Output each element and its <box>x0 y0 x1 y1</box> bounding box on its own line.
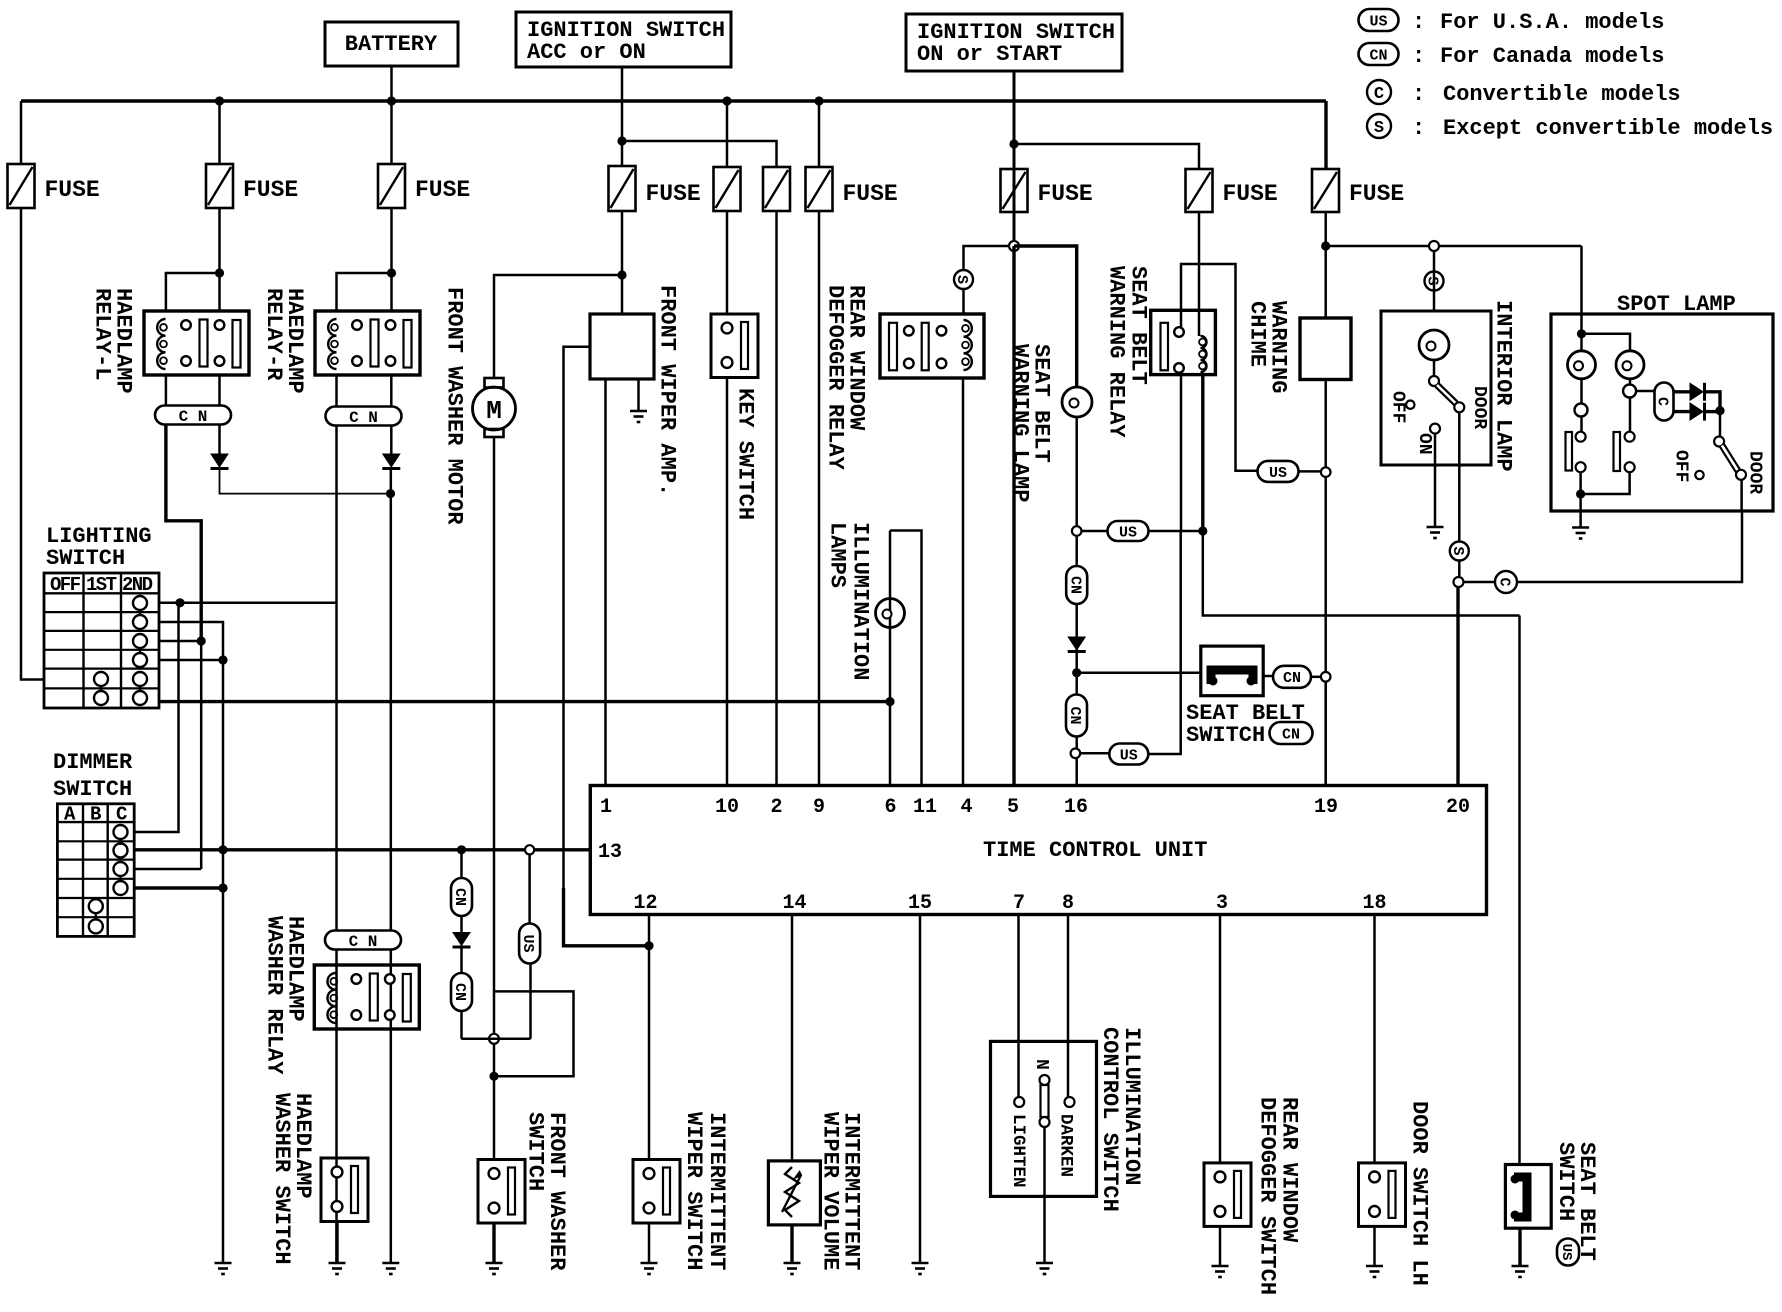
svg-text::: : <box>1412 44 1425 69</box>
wire bus to F3 <box>390 101 393 164</box>
S circle interior lamp <box>1425 272 1444 291</box>
junction dot above relay-R <box>387 268 396 277</box>
junction dot ON/START branch <box>1009 139 1018 148</box>
wire bus corner to F10 <box>1324 101 1327 169</box>
svg-text:WARNING RELAY: WARNING RELAY <box>1104 266 1129 438</box>
svg-text:KEY SWITCH: KEY SWITCH <box>733 388 758 520</box>
wire TCU pin15 to ground <box>919 915 922 1264</box>
wire relay-R coil to CN oval <box>335 374 338 407</box>
diode relay-L output <box>211 454 228 467</box>
spot switch contacts left <box>1576 432 1586 442</box>
svg-text:DEFOGGER RELAY: DEFOGGER RELAY <box>823 285 848 471</box>
svg-text:18: 18 <box>1362 892 1386 915</box>
wire relay coil down <box>1201 375 1204 531</box>
svg-text::: : <box>1412 10 1425 35</box>
fuse F10 <box>1312 169 1339 212</box>
interior lamp switch pivot <box>1429 376 1439 386</box>
wire diode outputs <box>1705 392 1721 411</box>
front washer motor <box>485 378 504 388</box>
wire F4 to wiper amp <box>621 211 624 314</box>
fuse F4 <box>609 166 636 211</box>
ground seat belt switch <box>1512 1265 1529 1268</box>
wire chime line to spot lamp <box>1580 246 1583 351</box>
svg-text:SWITCH: SWITCH <box>1186 723 1265 748</box>
haedlamp washer relay <box>314 965 419 1029</box>
svg-text:Convertible models: Convertible models <box>1443 82 1681 107</box>
fuse F9 <box>1186 169 1213 212</box>
ground front washer switch <box>486 1262 503 1265</box>
seat belt switch US box <box>1505 1165 1551 1229</box>
interior lamp DOOR contact <box>1454 402 1464 412</box>
svg-text:SWITCH: SWITCH <box>523 1112 548 1191</box>
haedlamp washer relay CN oval <box>325 931 401 950</box>
ground haedlamp washer switch <box>335 1222 338 1264</box>
junction dot row3 <box>197 636 206 645</box>
connector oval CN warning lamp lower <box>1066 695 1087 737</box>
spot lamp bulb 1 <box>1568 351 1596 379</box>
rear window defogger relay box <box>880 314 984 378</box>
svg-text:LAMPS: LAMPS <box>825 522 850 588</box>
svg-text:FUSE: FUSE <box>415 177 470 203</box>
svg-text:SWITCH: SWITCH <box>53 777 132 802</box>
wire diode-L to junction <box>220 469 391 494</box>
connector circle washer node <box>489 1034 499 1044</box>
connector circle ON/START node <box>1009 241 1019 251</box>
svg-text:For Canada models: For Canada models <box>1440 44 1664 69</box>
ground interior lamp <box>1427 526 1444 529</box>
illumination control switch box <box>991 1041 1097 1196</box>
ground intermittent wiper switch <box>641 1262 658 1265</box>
wire CN lower to washer node <box>460 1011 463 1039</box>
main battery bus wire <box>21 99 1326 102</box>
svg-text:FUSE: FUSE <box>1349 181 1404 207</box>
svg-text:US: US <box>1269 465 1287 482</box>
svg-text:US: US <box>1120 747 1138 764</box>
svg-text:WARNING LAMP: WARNING LAMP <box>1008 344 1033 502</box>
wire US lower bypass <box>1081 752 1110 755</box>
svg-text:FUSE: FUSE <box>646 181 701 207</box>
dimmer switch table <box>57 804 134 937</box>
svg-text:For U.S.A. models: For U.S.A. models <box>1440 10 1664 35</box>
ignition switch ACC-or-ON box <box>516 12 731 67</box>
wire TCU pin14 down <box>791 915 794 1161</box>
fuse F1 <box>8 164 35 208</box>
wire TCU pin12 down <box>648 915 651 1160</box>
connector oval CN relay-R <box>326 407 402 426</box>
wire to interior lamp <box>1433 251 1436 311</box>
wire TCU pin18 down <box>1373 915 1376 1163</box>
svg-text:CN: CN <box>1282 726 1300 743</box>
svg-text:DOOR: DOOR <box>1469 386 1489 429</box>
wire ignition ACC to fuse F4 <box>621 67 624 166</box>
wire F2 to relay-L junction <box>218 207 221 311</box>
fuse F3 <box>378 164 405 208</box>
wire CN chain horizontal <box>461 1038 530 1041</box>
wire F10 to chime <box>1324 212 1327 318</box>
svg-text:FUSE: FUSE <box>1223 181 1278 207</box>
wire C to spot lamp <box>1517 511 1742 582</box>
wire ON/START to warning lamp <box>1014 246 1077 388</box>
wire relay-L right output to diode <box>218 424 221 454</box>
svg-text:DIMMER: DIMMER <box>53 750 133 775</box>
warning chime box <box>1300 318 1351 380</box>
wire dimmer row4 <box>134 886 223 889</box>
front washer switch <box>478 1160 525 1224</box>
svg-text:9: 9 <box>813 796 825 819</box>
svg-text:S: S <box>953 275 970 284</box>
spot lamp bulb 2 <box>1616 351 1644 379</box>
wire bus to F1 <box>20 101 23 164</box>
bus junction dots <box>215 96 224 105</box>
TIME CONTROL UNIT box <box>590 786 1486 915</box>
rear window defogger switch <box>1204 1163 1251 1227</box>
svg-text::: : <box>1412 82 1425 107</box>
seat belt switch box (console) <box>1201 646 1263 696</box>
dimmer switch contacts C column <box>114 825 128 839</box>
wire washer switch to ground <box>492 1223 495 1263</box>
svg-text:LIGHTEN: LIGHTEN <box>1008 1114 1028 1188</box>
wire S to C node <box>1458 561 1461 583</box>
svg-text:SWITCH: SWITCH <box>1553 1142 1578 1221</box>
svg-text:CN: CN <box>1283 670 1301 687</box>
interior lamp bulb <box>1419 330 1449 360</box>
connector circle bulb1 <box>1575 404 1588 417</box>
wire left edge down to lighting switch <box>21 207 44 680</box>
svg-text:2ND: 2ND <box>122 574 153 596</box>
dimmer switch contacts B column <box>89 899 103 913</box>
svg-text:CN: CN <box>1066 706 1083 724</box>
interior lamp ON contact <box>1430 424 1440 434</box>
legend C circle <box>1367 80 1391 104</box>
wire diode-R down <box>390 469 393 1264</box>
svg-text:B: B <box>90 804 101 826</box>
wire link down to seat belt switch US <box>1518 616 1521 1165</box>
svg-text:OFF: OFF <box>50 574 81 596</box>
wire bulb2 to C oval <box>1636 390 1655 393</box>
svg-text:6: 6 <box>884 796 896 819</box>
S circle defogger <box>954 270 973 289</box>
svg-text:3: 3 <box>1216 892 1228 915</box>
spot lamp box <box>1551 314 1773 511</box>
illumination lamp bulb <box>876 599 905 628</box>
fuse F8 <box>1001 169 1028 212</box>
lighting switch contacts 2ND column <box>133 596 147 610</box>
wire bus to F2 <box>218 101 221 164</box>
svg-text:ON: ON <box>1414 433 1434 455</box>
svg-text:2: 2 <box>770 796 782 819</box>
connector oval US chime <box>1258 461 1299 482</box>
junction dot pin13-row2 <box>218 845 227 854</box>
junction dot ACC branch <box>617 136 626 145</box>
seat belt warning relay box <box>1151 310 1216 374</box>
svg-text:C: C <box>1496 577 1513 586</box>
wire F6 to TCU pin2 <box>775 211 778 786</box>
wire CN oval to node <box>1311 676 1321 679</box>
wire F5 to key switch <box>726 211 729 314</box>
intermittent wiper volume box <box>768 1161 820 1225</box>
illumination slider <box>1040 1075 1050 1085</box>
svg-text:A: A <box>64 804 76 826</box>
svg-text:RELAY-L: RELAY-L <box>90 288 115 380</box>
door switch LH <box>1359 1163 1406 1227</box>
wire warning lamp down <box>1075 417 1078 786</box>
connector oval CN chain lower <box>451 973 472 1011</box>
wire motor down <box>493 437 496 1160</box>
svg-text:ON or START: ON or START <box>917 42 1062 67</box>
svg-text:S: S <box>1449 546 1466 555</box>
wire bulb1 down <box>1580 379 1583 432</box>
svg-text:11: 11 <box>913 796 937 819</box>
svg-text:WASHER SWITCH: WASHER SWITCH <box>269 1093 294 1265</box>
wire ON/START branch to F9 <box>1014 144 1199 169</box>
lighting switch contacts 1ST column <box>94 672 108 686</box>
svg-text:C: C <box>1374 85 1384 104</box>
svg-text:C: C <box>1654 397 1671 406</box>
svg-text:4: 4 <box>960 796 972 819</box>
svg-text:13: 13 <box>598 841 622 864</box>
svg-text:FUSE: FUSE <box>1038 181 1093 207</box>
haedlamp washer switch <box>321 1158 368 1222</box>
svg-text:1: 1 <box>600 796 612 819</box>
wire relay-R left output down <box>335 425 338 1263</box>
connector circle chime-US <box>1321 467 1331 477</box>
wire TCU pin8 down <box>1067 915 1070 1098</box>
wire wiper amp to TCU pin1 <box>604 379 607 786</box>
wire defogger relay feed <box>964 246 1015 270</box>
svg-text:US: US <box>519 934 536 952</box>
illumination DARKEN contact <box>1065 1097 1075 1107</box>
connector oval CN relay-L <box>155 406 231 425</box>
wire relay-L contact to CN oval <box>218 374 221 406</box>
ground spot lamp <box>1572 526 1589 529</box>
connector circle bulb2 <box>1623 385 1636 398</box>
svg-text:15: 15 <box>908 892 932 915</box>
wire lighting row4 <box>159 659 223 662</box>
svg-text:FRONT WIPER AMP.: FRONT WIPER AMP. <box>655 285 680 496</box>
relay HAEDLAMP RELAY-L <box>144 311 249 375</box>
wire wiper amp ground <box>637 379 640 411</box>
fuse F7 <box>806 167 833 211</box>
svg-text:S: S <box>1424 276 1441 285</box>
svg-text:7: 7 <box>1013 892 1025 915</box>
svg-text:1ST: 1ST <box>86 574 117 596</box>
wire amp-pin12 link <box>564 888 650 946</box>
wire branch to washer motor <box>494 275 622 378</box>
spot door switch pivot <box>1714 437 1724 447</box>
connector circle warning lamp node <box>1072 526 1082 536</box>
wire bulb2 contact merge <box>1581 472 1630 494</box>
wire relay to US branch <box>1199 264 1258 471</box>
wire F3 to relay-R junction <box>390 207 393 311</box>
wire spot DOOR down <box>1740 480 1743 511</box>
seat belt buckle symbol <box>1514 1177 1527 1217</box>
svg-text:ACC or ON: ACC or ON <box>527 40 646 65</box>
svg-text:CN: CN <box>1369 47 1387 64</box>
diode spot 2 <box>1690 403 1703 420</box>
fuse F5 <box>714 167 741 211</box>
legend CN oval <box>1359 43 1399 65</box>
svg-text:US: US <box>1369 13 1387 30</box>
wire chime branch right <box>1326 245 1582 248</box>
wire to seat belt switch <box>1077 671 1201 674</box>
svg-text:C N: C N <box>349 409 378 427</box>
junction dot illumination <box>885 697 894 706</box>
svg-text:C N: C N <box>349 933 378 951</box>
svg-text:N: N <box>1031 1059 1051 1070</box>
wire to ground <box>648 1223 651 1263</box>
svg-text:20: 20 <box>1446 796 1470 819</box>
junction dot relay-lamp <box>1198 526 1207 535</box>
wire to ground <box>1373 1227 1376 1267</box>
key switch <box>711 314 758 378</box>
wire US chain down <box>528 854 531 923</box>
svg-text:S: S <box>1374 119 1384 138</box>
connector oval CN chain upper <box>451 878 472 916</box>
connector oval US warning lamp lower <box>1109 744 1148 765</box>
wire relay node to TCU20 link <box>1203 531 1520 616</box>
diode CN chain <box>453 933 470 946</box>
svg-text:ILLUMINATION: ILLUMINATION <box>848 522 873 680</box>
junction dot row1 <box>175 598 184 607</box>
wire spot branch <box>1582 334 1631 351</box>
wire battery to bus <box>390 66 393 101</box>
svg-text:BATTERY: BATTERY <box>345 32 438 57</box>
wire bulb to pivot <box>1433 360 1436 376</box>
svg-text:DARKEN: DARKEN <box>1056 1114 1076 1177</box>
svg-text:16: 16 <box>1064 796 1088 819</box>
junction dot diodes merge <box>386 489 395 498</box>
wire relay contact down <box>1180 373 1183 532</box>
wire dimmer row2 to TCU pin13 <box>134 848 590 851</box>
svg-text:WIPER VOLUME: WIPER VOLUME <box>818 1112 843 1270</box>
svg-text:C N: C N <box>179 408 208 426</box>
wire relay-R contact to CN oval <box>390 374 393 407</box>
svg-text:CHIME: CHIME <box>1245 301 1270 367</box>
ground pin15 <box>912 1262 929 1265</box>
junction dot row4 <box>218 655 227 664</box>
wire branch to relay-R coil <box>337 273 392 311</box>
wire dimmer row3 <box>134 868 201 871</box>
svg-text:CN: CN <box>451 888 468 906</box>
front wiper amp box <box>590 314 654 379</box>
svg-text:10: 10 <box>715 796 739 819</box>
spot OFF contact <box>1695 471 1703 479</box>
ground lighting row2 wire <box>215 1262 232 1265</box>
svg-text:FUSE: FUSE <box>243 177 298 203</box>
wiper volume resistor zigzag <box>785 1167 799 1217</box>
junction dot spot ground <box>1576 489 1585 498</box>
interior lamp box <box>1381 311 1491 465</box>
svg-text:DOOR SWITCH LH: DOOR SWITCH LH <box>1407 1101 1432 1286</box>
wire to ground <box>1219 1227 1222 1267</box>
wire CN chain down <box>460 850 463 878</box>
interior lamp OFF contact <box>1406 401 1414 409</box>
wire diode to CN lower <box>460 947 463 973</box>
wire row3 vertical to dimmer <box>200 641 203 869</box>
wire branch to relay-L coil <box>166 273 220 311</box>
wire lighting row6 to illumination lamps <box>159 700 890 703</box>
junction dot diode merge <box>1715 406 1724 415</box>
svg-text:CONTROL SWITCH: CONTROL SWITCH <box>1097 1027 1122 1212</box>
svg-text:WASHER RELAY: WASHER RELAY <box>262 916 287 1075</box>
C circle convertible <box>1495 571 1517 593</box>
wire bulb1 contact to ground <box>1579 472 1582 528</box>
wire motor bypass loop <box>494 991 574 1076</box>
wire lighting row2 <box>159 622 223 1263</box>
connector circle seat belt CN node <box>1321 672 1331 682</box>
legend S circle <box>1367 114 1391 138</box>
junction dot warning lamp chain <box>1072 668 1081 677</box>
wire relay-L left output <box>166 424 201 641</box>
ground illumination switch <box>1036 1262 1053 1265</box>
connector circle C node <box>1454 577 1464 587</box>
legend US oval <box>1359 9 1399 31</box>
intermittent wiper switch <box>633 1160 680 1224</box>
svg-text:M: M <box>486 396 502 426</box>
spot switch contacts right <box>1625 432 1635 442</box>
interior lamp switch lever <box>1437 385 1456 404</box>
connector oval C spot <box>1655 383 1674 421</box>
connector oval US warning lamp <box>1108 521 1149 541</box>
relay HAEDLAMP RELAY-R <box>315 311 420 375</box>
svg-text:US: US <box>1119 524 1137 541</box>
svg-text:CN: CN <box>1066 576 1083 594</box>
wire ON contact to ground <box>1434 434 1437 527</box>
wire seat belt switch to CN oval <box>1263 675 1273 678</box>
wire C node to TCU pin20 <box>1456 587 1459 786</box>
svg-text:RELAY-R: RELAY-R <box>261 288 286 381</box>
junction dot bypass <box>489 1072 498 1081</box>
ground wiper volume <box>784 1262 801 1265</box>
svg-text:19: 19 <box>1314 796 1338 819</box>
wire volume to ground <box>790 1225 793 1263</box>
connector oval CN seat belt <box>1273 666 1311 688</box>
diode relay-R output <box>383 454 400 467</box>
junction dot above wiper amp <box>617 270 626 279</box>
svg-text:Except convertible models: Except convertible models <box>1443 116 1773 141</box>
wire defogger relay to TCU pin4 <box>962 378 965 786</box>
wire key switch to TCU pin10 <box>726 378 729 786</box>
diode warning lamp chain <box>1068 637 1085 650</box>
svg-text::: : <box>1412 116 1425 141</box>
svg-text:OFF: OFF <box>1388 391 1408 423</box>
ground wiper amp <box>630 410 647 413</box>
wire S to defogger relay <box>962 289 965 314</box>
battery box <box>325 22 458 66</box>
junction dot above relay-L <box>215 268 224 277</box>
svg-text:SWITCH: SWITCH <box>46 546 125 571</box>
wire C oval to diodes <box>1673 390 1690 393</box>
wire illumination lamp loop <box>890 531 922 786</box>
seat belt warning lamp bulb <box>1062 387 1092 417</box>
wire ON/START to TCU pin5 <box>1012 246 1015 786</box>
svg-text:8: 8 <box>1062 892 1074 915</box>
svg-text:WIPER SWITCH: WIPER SWITCH <box>681 1112 706 1270</box>
connector circle interior lamp feed <box>1429 241 1439 251</box>
wire node to TCU pin19 <box>1324 681 1327 786</box>
wire lighting row3 <box>159 640 201 643</box>
connector oval CN warning lamp <box>1066 566 1087 604</box>
wire dimmer row1 up to lighting row1 <box>134 603 179 832</box>
wire CN to diode <box>460 916 463 932</box>
wire relay-R line to ground <box>382 1262 399 1265</box>
wire to spot door switch <box>1719 411 1722 437</box>
wire F9 to relay <box>1181 212 1199 332</box>
svg-text:FRONT WASHER MOTOR: FRONT WASHER MOTOR <box>442 287 467 525</box>
svg-text:TIME CONTROL UNIT: TIME CONTROL UNIT <box>983 838 1207 863</box>
lighting switch table <box>44 573 159 708</box>
wire F7 to TCU pin9 <box>818 211 821 786</box>
